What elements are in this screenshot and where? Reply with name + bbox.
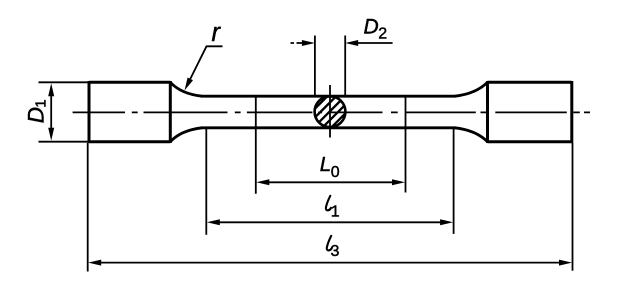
D2 extension line left (314, 36, 316, 96)
L0 dimension line (266, 181, 395, 183)
svg-text:1: 1 (33, 99, 50, 107)
fillet top-right (455, 82, 488, 96)
D2 extension line right (344, 36, 346, 96)
fillet top-left r (170, 82, 202, 96)
svg-text:D: D (364, 15, 379, 38)
hatched cross-section circle (284, 91, 386, 140)
L0 extension line right (gauge mark) (405, 97, 407, 193)
specimen outline: right head (488, 81, 572, 143)
specimen outline: left head (89, 81, 170, 143)
l1 dimension line (216, 221, 444, 223)
l1 extension line right (453, 128, 455, 234)
svg-text:0: 0 (331, 164, 340, 181)
svg-text:2: 2 (378, 26, 387, 43)
fillet bottom-left (170, 128, 202, 142)
l1 extension line left (205, 128, 207, 235)
D2 arrow right (357, 42, 393, 44)
D1 extension lines (39, 82, 89, 141)
fillet bottom-right (455, 128, 488, 142)
gauge section top edge (201, 95, 456, 98)
svg-text:1: 1 (331, 204, 340, 221)
svg-text:3: 3 (331, 243, 340, 260)
centerline (dash-dot axis) (73, 111, 590, 113)
label l1 (script ell) (326, 196, 331, 211)
l3 extension line left (87, 143, 89, 272)
l3 extension line right (572, 143, 574, 271)
D2 arrow left (291, 42, 304, 44)
L0 extension line left (gauge mark) (255, 97, 257, 194)
svg-text:L: L (320, 153, 331, 176)
svg-text:D: D (23, 107, 48, 123)
label l3 (script ell) (327, 236, 332, 251)
r leader (188, 46, 223, 83)
l3 dimension line (97, 262, 563, 264)
D1 dimension line (50, 93, 52, 131)
gauge section bottom edge (201, 126, 456, 129)
label D1 (rotated) (23, 99, 49, 123)
circle vertical center mark (329, 85, 331, 138)
svg-text:r: r (212, 19, 222, 47)
